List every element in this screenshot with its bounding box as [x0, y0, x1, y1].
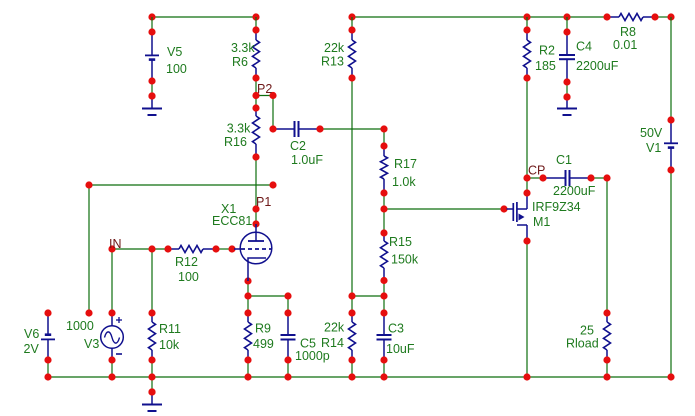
wire R14 top lead: [351, 296, 353, 313]
svg-text:R8: R8: [620, 25, 636, 39]
resistor R16 top terminal: [252, 104, 259, 111]
node C4 ground: [563, 93, 570, 100]
resistor R16: [255, 108, 257, 116]
V3 + terminal: [108, 309, 115, 316]
capacitor C5 bottom terminal: [284, 356, 291, 363]
capacitor C5 top terminal: [284, 309, 291, 316]
resistor R6 bottom terminal: [252, 74, 259, 81]
bus node V3: [108, 373, 115, 380]
svg-text:R13: R13: [321, 55, 344, 69]
M1 drain terminal: [523, 189, 530, 196]
wire R11 to ground node: [151, 360, 153, 392]
resistor R14: [351, 313, 353, 322]
node V5 ground: [148, 92, 155, 99]
battery V5: [151, 32, 153, 55]
resistor R17: [383, 146, 385, 156]
bus node R14: [348, 373, 355, 380]
wire P2 to C2: [272, 96, 274, 130]
resistor R2 bottom terminal: [523, 74, 530, 81]
resistor R12 right terminal: [212, 245, 219, 252]
svg-text:R12: R12: [175, 255, 198, 269]
resistor R13 top terminal: [348, 26, 355, 33]
wire CP to C1: [527, 177, 543, 179]
wire V3 bottom lead: [111, 360, 113, 377]
capacitor C1 right terminal: [587, 174, 594, 181]
ground near C4 terminal: [563, 93, 570, 100]
svg-text:R11: R11: [159, 322, 181, 336]
M1 source terminal: [523, 237, 530, 244]
svg-text:1000: 1000: [66, 319, 94, 333]
svg-text:1.0k: 1.0k: [392, 175, 416, 189]
wire C4 to ground: [566, 82, 568, 97]
resistor R15: [383, 233, 385, 241]
wire to R17: [383, 129, 385, 146]
wire C3 bottom lead: [383, 360, 385, 377]
bus corner V1: [667, 373, 674, 380]
svg-text:C3: C3: [388, 322, 404, 336]
resistor R2: [526, 30, 528, 40]
resistor Rload top terminal: [603, 309, 610, 316]
resistor R17 top terminal: [380, 142, 387, 149]
wire R12 to grid: [216, 248, 232, 250]
resistor R14 top terminal: [348, 309, 355, 316]
svg-text:150k: 150k: [391, 253, 419, 267]
wire C4 top lead: [566, 17, 568, 32]
wire R9 bottom lead: [247, 360, 249, 377]
svg-text:50V: 50V: [640, 126, 663, 140]
svg-text:R14: R14: [321, 336, 344, 350]
svg-text:V6: V6: [24, 327, 39, 341]
battery V1: [670, 120, 672, 143]
triode X1 ECC81: [240, 232, 272, 264]
node feedback corner: [85, 181, 92, 188]
wire V5 top lead: [151, 17, 153, 32]
svg-text:R15: R15: [389, 235, 412, 249]
wire feedback horizontal: [89, 184, 273, 186]
wire R14-C3 junction row: [352, 295, 384, 297]
wire right edge bottom: [670, 170, 672, 377]
capacitor C1 left terminal: [539, 174, 546, 181]
svg-text:R9: R9: [255, 322, 271, 336]
resistor R11 top terminal: [148, 309, 155, 316]
node P2 junction: [252, 92, 259, 99]
battery V6 + terminal: [44, 309, 51, 316]
capacitor C3 top terminal: [380, 309, 387, 316]
svg-text:V3: V3: [84, 337, 99, 351]
svg-text:3.3k: 3.3k: [231, 41, 255, 55]
svg-text:V1: V1: [646, 141, 661, 155]
node R11 tap: [148, 245, 155, 252]
svg-text:3.3k: 3.3k: [227, 122, 251, 136]
wire P2 stub: [256, 95, 273, 97]
wire feedback vertical: [88, 185, 90, 313]
node feedback end: [269, 181, 276, 188]
svg-text:25: 25: [580, 324, 594, 338]
resistor Rload bottom terminal: [603, 356, 610, 363]
svg-text:0.01: 0.01: [613, 38, 637, 52]
svg-text:10uF: 10uF: [386, 342, 415, 356]
wire P1 to plate: [255, 209, 257, 224]
wire R13 to R14: [351, 78, 353, 296]
node grid wire end: [228, 245, 235, 252]
wire top-left V5 to R6: [152, 16, 256, 18]
bus node C3: [380, 373, 387, 380]
resistor R17 bottom terminal: [380, 189, 387, 196]
svg-text:R16: R16: [224, 135, 247, 149]
resistor R9: [247, 313, 249, 322]
svg-text:Rload: Rload: [566, 337, 599, 351]
svg-text:M1: M1: [533, 215, 550, 229]
svg-text:ECC81: ECC81: [212, 214, 252, 228]
wire R6 top lead: [255, 17, 257, 30]
svg-text:2200uF: 2200uF: [576, 59, 619, 73]
node C1 to Rload corner: [603, 174, 610, 181]
wire C3 top lead: [383, 296, 385, 313]
battery V6 - terminal: [44, 356, 51, 363]
ground below R11 terminal: [148, 388, 155, 395]
ground below R11: [151, 392, 153, 405]
resistor R8 left terminal: [603, 13, 610, 20]
wire R2 top lead: [526, 17, 528, 30]
svg-text:P2: P2: [257, 82, 272, 96]
svg-text:CP: CP: [528, 164, 545, 178]
svg-text:P1: P1: [256, 195, 271, 209]
svg-text:1000p: 1000p: [295, 349, 330, 363]
capacitor C2 left terminal: [269, 125, 276, 132]
bus node C5: [284, 373, 291, 380]
node R9 junction: [244, 292, 251, 299]
wire R13 top lead: [351, 17, 353, 30]
battery V5 - terminal: [148, 77, 155, 84]
wire C1 out: [591, 177, 607, 179]
wire P2 to R16: [255, 96, 257, 109]
wire IN to V3: [111, 249, 113, 313]
node cathode: [244, 277, 251, 284]
node top-left V5 corner: [148, 13, 155, 20]
resistor R13: [351, 30, 353, 40]
resistor R6: [255, 30, 257, 40]
wire R8 to right corner: [655, 16, 671, 18]
capacitor C3: [383, 313, 385, 335]
svg-text:185: 185: [535, 59, 556, 73]
wire right edge top: [670, 17, 672, 120]
resistor R16 bottom terminal: [252, 153, 259, 160]
svg-text:2V: 2V: [24, 342, 40, 356]
node CP: [523, 174, 530, 181]
V3 - terminal: [108, 356, 115, 363]
wire Rload bottom lead: [606, 360, 608, 377]
wire R15 bottom: [383, 281, 385, 297]
node R11 ground: [148, 388, 155, 395]
svg-text:C2: C2: [290, 139, 306, 153]
resistor R9 bottom terminal: [244, 356, 251, 363]
wire IN to R12: [112, 248, 168, 250]
ground near V5: [151, 96, 153, 109]
wire R16 to P1: [255, 157, 257, 209]
svg-text:2200uF: 2200uF: [553, 184, 596, 198]
resistor R8: [607, 16, 619, 18]
wire R17 to R15: [383, 193, 385, 233]
svg-text:100: 100: [166, 62, 187, 76]
wire R2 to M1 drain: [526, 78, 528, 193]
wire M1 source to bus: [526, 241, 528, 377]
svg-text:IN: IN: [109, 237, 122, 251]
wire R9-C5 junction row: [248, 295, 288, 297]
node top R2: [523, 13, 530, 20]
resistor R8 right terminal: [651, 13, 658, 20]
node feedback bottom end: [85, 309, 92, 316]
capacitor C1: [543, 177, 566, 179]
svg-text:R2: R2: [539, 44, 555, 58]
ground near C4: [566, 97, 568, 109]
svg-text:IRF9Z34: IRF9Z34: [532, 200, 581, 214]
node P2 stub end: [269, 92, 276, 99]
wire top-right R13 to R8: [352, 16, 607, 18]
ground near V5 terminal: [148, 92, 155, 99]
bus node Rload: [603, 373, 610, 380]
node top R6 corner: [252, 13, 259, 20]
svg-text:R6: R6: [232, 55, 248, 69]
node top-right corner: [667, 13, 674, 20]
node plate terminal: [252, 220, 259, 227]
svg-text:100: 100: [178, 270, 199, 284]
bus corner V6: [44, 373, 51, 380]
resistor R9 top terminal: [244, 309, 251, 316]
wire R6 to P2: [255, 78, 257, 96]
capacitor C5: [287, 313, 289, 335]
resistor Rload: [606, 313, 608, 322]
resistor R11 bottom terminal: [148, 356, 155, 363]
node gate wire end: [500, 205, 507, 212]
svg-text:22k: 22k: [324, 41, 345, 55]
resistor R15 top terminal: [380, 229, 387, 236]
resistor R2 top terminal: [523, 26, 530, 33]
capacitor C2 right terminal: [316, 125, 323, 132]
wire C5 top lead: [287, 296, 289, 313]
svg-text:499: 499: [253, 337, 274, 351]
svg-text:V5: V5: [167, 45, 182, 59]
svg-text:22k: 22k: [324, 321, 345, 335]
wire gate: [384, 208, 504, 210]
resistor R11: [151, 313, 153, 322]
node top R13: [348, 13, 355, 20]
battery V1 - terminal: [667, 166, 674, 173]
svg-text:C4: C4: [576, 40, 592, 54]
node gate divider: [380, 205, 387, 212]
node IN: [108, 245, 115, 252]
svg-text:C1: C1: [556, 153, 572, 167]
battery V1 + terminal: [667, 116, 674, 123]
svg-text:10k: 10k: [159, 338, 180, 352]
resistor R12 left terminal: [164, 245, 171, 252]
wire C2 to R17 node: [320, 128, 384, 130]
capacitor C4 top terminal: [563, 28, 570, 35]
capacitor C4 bottom terminal: [563, 78, 570, 85]
wire R14 bottom lead: [351, 360, 353, 377]
svg-text:R17: R17: [394, 157, 417, 171]
node C5 junction: [284, 292, 291, 299]
node C3 junction: [380, 292, 387, 299]
resistor R15 bottom terminal: [380, 277, 387, 284]
bus node R9: [244, 373, 251, 380]
battery V5 + terminal: [148, 28, 155, 35]
capacitor C4: [566, 32, 568, 55]
node top C4: [563, 13, 570, 20]
svg-text:1.0uF: 1.0uF: [291, 153, 323, 167]
MOSFET M1 IRF9Z34: [507, 208, 515, 210]
resistor R12: [168, 248, 179, 250]
bus node R11: [148, 373, 155, 380]
wire ground bus: [48, 376, 671, 378]
wire V5 to ground: [151, 81, 153, 96]
wire C5 bottom lead: [287, 360, 289, 377]
wire cathode to R9: [247, 281, 249, 313]
battery V6: [47, 313, 49, 335]
wire to R11: [151, 249, 153, 313]
capacitor C2: [273, 128, 295, 130]
wire V6 bottom lead: [47, 360, 49, 377]
node C2-R17: [380, 125, 387, 132]
AC source V3: [111, 313, 113, 326]
resistor R6 top terminal: [252, 26, 259, 33]
node R14 junction: [348, 292, 355, 299]
resistor R13 bottom terminal: [348, 74, 355, 81]
bus node M1: [523, 373, 530, 380]
capacitor C3 bottom terminal: [380, 356, 387, 363]
node P1: [252, 205, 259, 212]
resistor R14 bottom terminal: [348, 356, 355, 363]
wire to Rload: [606, 178, 608, 313]
